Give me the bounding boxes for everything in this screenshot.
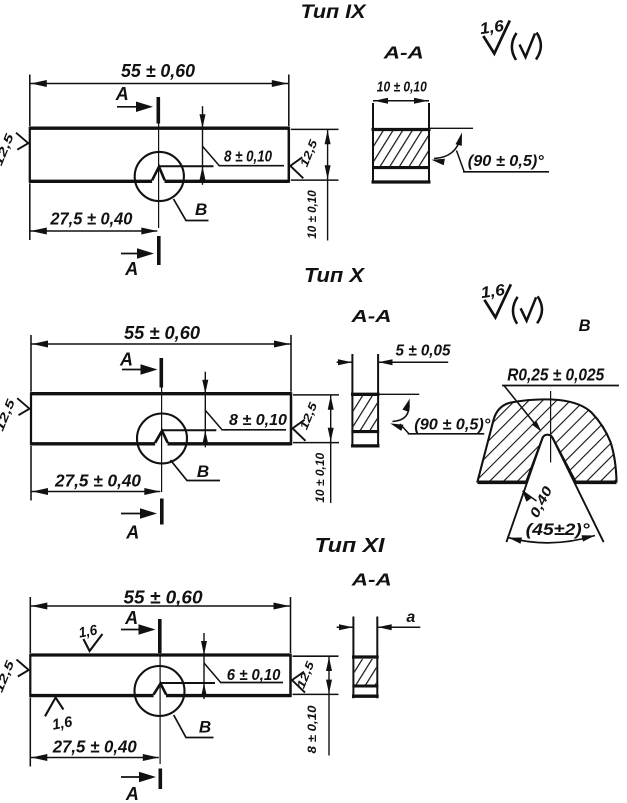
svg-text:A: A: [125, 523, 139, 543]
svg-text:27,5 ± 0,40: 27,5 ± 0,40: [54, 471, 141, 491]
svg-text:A: A: [124, 608, 138, 628]
svg-text:A: A: [124, 259, 138, 279]
svg-text:В: В: [195, 200, 207, 219]
svg-text:1,6: 1,6: [479, 18, 505, 38]
svg-text:(90 ± 0,5)°: (90 ± 0,5)°: [468, 153, 545, 170]
svg-text:A: A: [115, 84, 129, 104]
svg-text:1,6: 1,6: [480, 282, 506, 302]
svg-text:(45±2)°: (45±2)°: [526, 520, 590, 539]
svg-text:1,6: 1,6: [51, 713, 74, 733]
svg-text:8 ± 0,10: 8 ± 0,10: [307, 705, 319, 754]
svg-text:10 ± 0,10: 10 ± 0,10: [307, 190, 319, 239]
svg-text:5 ± 0,05: 5 ± 0,05: [396, 343, 451, 360]
svg-text:A: A: [119, 350, 133, 370]
svg-text:27,5 ± 0,40: 27,5 ± 0,40: [52, 737, 137, 757]
svg-text:A: A: [125, 784, 139, 803]
svg-text:Тип XI: Тип XI: [315, 535, 386, 557]
svg-text:R0,25 ± 0,025: R0,25 ± 0,025: [507, 365, 604, 385]
svg-text:A-A: A-A: [351, 570, 392, 590]
svg-text:55 ± 0,60: 55 ± 0,60: [121, 61, 195, 81]
svg-text:8 ± 0,10: 8 ± 0,10: [229, 412, 287, 429]
svg-text:В: В: [199, 718, 211, 737]
svg-text:В: В: [579, 317, 591, 335]
svg-text:a: a: [406, 609, 415, 626]
svg-text:8 ± 0,10: 8 ± 0,10: [224, 149, 272, 166]
svg-text:55 ± 0,60: 55 ± 0,60: [124, 588, 203, 608]
svg-text:В: В: [197, 462, 209, 481]
svg-text:10 ± 0,10: 10 ± 0,10: [377, 79, 428, 96]
svg-text:55 ± 0,60: 55 ± 0,60: [124, 323, 200, 343]
svg-text:A-A: A-A: [383, 43, 424, 63]
svg-text:Тип IX: Тип IX: [301, 1, 367, 23]
svg-text:6 ± 0,10: 6 ± 0,10: [227, 667, 281, 684]
svg-text:(90 ± 0,5)°: (90 ± 0,5)°: [414, 417, 491, 434]
svg-text:27,5 ± 0,40: 27,5 ± 0,40: [49, 209, 132, 229]
svg-text:A-A: A-A: [350, 306, 391, 326]
svg-text:1,6: 1,6: [78, 622, 100, 641]
svg-text:Тип X: Тип X: [304, 265, 366, 287]
svg-text:10 ± 0,10: 10 ± 0,10: [315, 452, 327, 503]
